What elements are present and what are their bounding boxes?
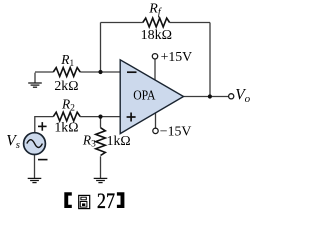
- svg-text:−15V: −15V: [160, 124, 192, 139]
- svg-text:1kΩ: 1kΩ: [54, 120, 78, 135]
- svg-text:1kΩ: 1kΩ: [107, 133, 131, 148]
- svg-text:+15V: +15V: [161, 49, 193, 64]
- svg-text:OPA: OPA: [133, 88, 156, 103]
- svg-text:18kΩ: 18kΩ: [141, 28, 172, 43]
- svg-text:27: 27: [97, 188, 115, 213]
- svg-text:2kΩ: 2kΩ: [54, 78, 78, 93]
